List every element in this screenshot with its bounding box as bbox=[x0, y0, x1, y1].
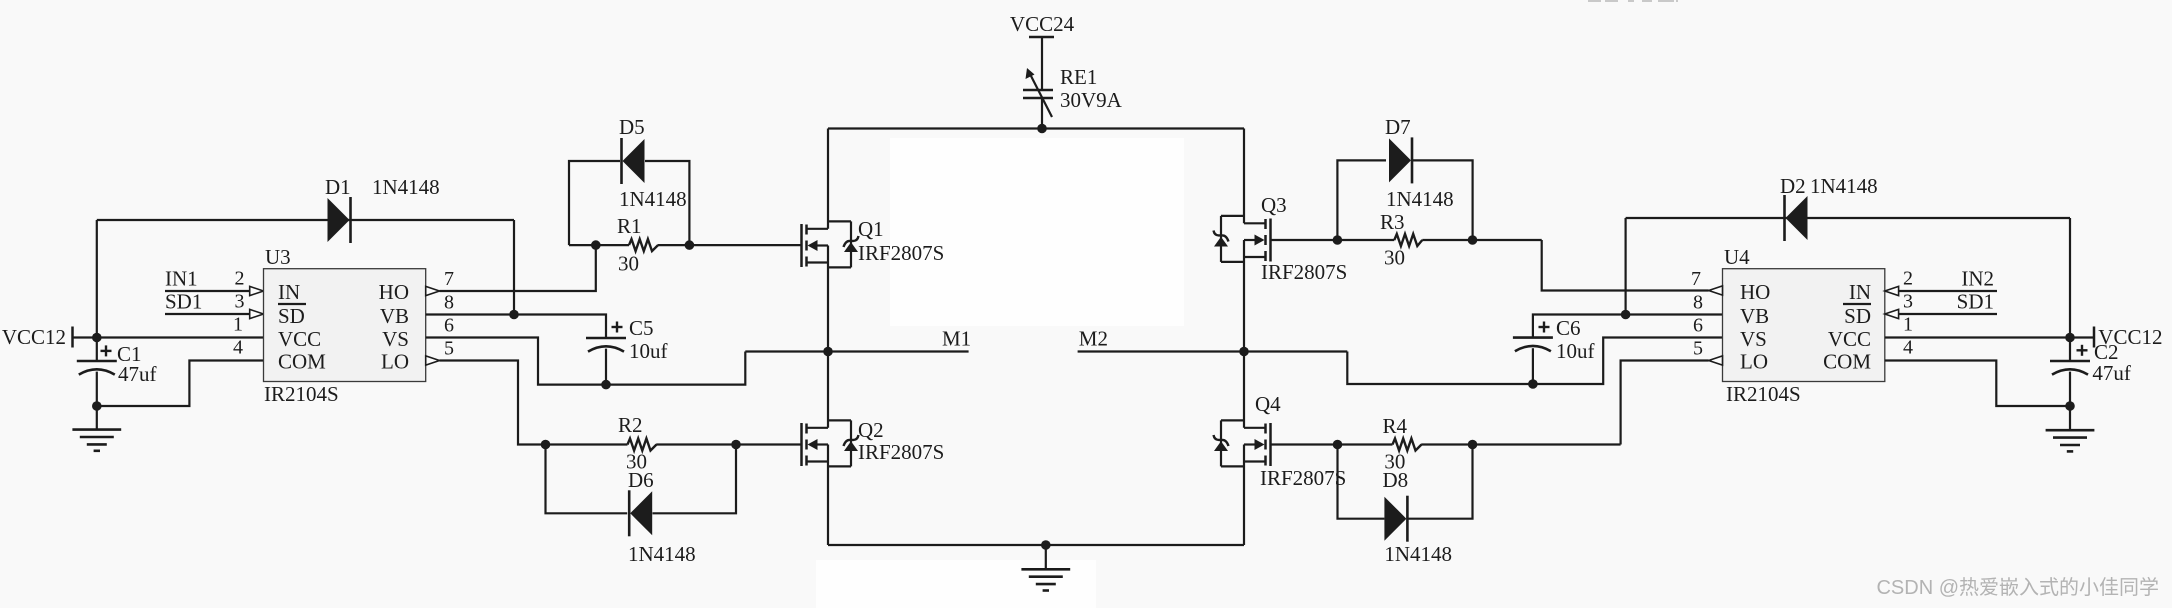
svg-text:8: 8 bbox=[1693, 292, 1703, 314]
fuse RE1 bbox=[1023, 89, 1053, 92]
svg-text:1: 1 bbox=[1903, 314, 1913, 336]
svg-text:1: 1 bbox=[233, 314, 243, 336]
svg-text:IR2104S: IR2104S bbox=[264, 382, 339, 406]
svg-text:VB: VB bbox=[380, 304, 409, 328]
wire VB to C6 bbox=[1533, 315, 1723, 338]
wire Q4 source bbox=[1243, 445, 1245, 546]
svg-text:IRF2807S: IRF2807S bbox=[1261, 260, 1347, 284]
svg-text:30: 30 bbox=[618, 252, 639, 276]
node VCC12/C2 junction bbox=[2065, 333, 2075, 343]
svg-text:10uf: 10uf bbox=[1556, 339, 1595, 363]
svg-text:CSDN @热爱嵌入式的小佳同学: CSDN @热爱嵌入式的小佳同学 bbox=[1876, 576, 2159, 599]
svg-text:Q2: Q2 bbox=[858, 418, 884, 442]
wire R3 to HO bbox=[1542, 240, 1709, 291]
op-amp U3 body bbox=[264, 269, 426, 382]
svg-text:7: 7 bbox=[444, 268, 454, 290]
svg-text:IN: IN bbox=[1849, 280, 1871, 304]
wire R4 to LO bbox=[1621, 361, 1709, 445]
watermark top sliver bbox=[1588, 0, 1678, 2]
wire LO to R2 bbox=[440, 361, 546, 445]
svg-text:1N4148: 1N4148 bbox=[1386, 187, 1454, 211]
svg-text:D1: D1 bbox=[325, 175, 351, 199]
wire bottom rail bbox=[828, 544, 1244, 546]
svg-text:COM: COM bbox=[278, 350, 326, 374]
ground GND1 (C1) bbox=[96, 406, 98, 430]
svg-text:C5: C5 bbox=[629, 316, 654, 340]
svg-text:D8: D8 bbox=[1383, 468, 1409, 492]
node R3 left junction bbox=[1333, 235, 1343, 245]
svg-text:U4: U4 bbox=[1724, 245, 1750, 269]
svg-text:LO: LO bbox=[381, 350, 409, 374]
svg-text:D2: D2 bbox=[1780, 174, 1806, 198]
node R2 right junction bbox=[731, 440, 741, 450]
svg-text:7: 7 bbox=[1691, 268, 1701, 290]
svg-text:VCC24: VCC24 bbox=[1010, 12, 1075, 36]
svg-text:8: 8 bbox=[444, 292, 454, 314]
pin 5 arrow (U4 LO) bbox=[1709, 356, 1723, 365]
resistor R3 bbox=[1271, 239, 1395, 241]
svg-text:D5: D5 bbox=[619, 115, 645, 139]
svg-text:LO: LO bbox=[1740, 350, 1768, 374]
diode D2 bbox=[1786, 196, 1808, 240]
svg-text:6: 6 bbox=[444, 315, 454, 337]
resistor R1 bbox=[569, 244, 629, 246]
op-amp U4 body bbox=[1723, 269, 1885, 382]
pin 3 arrow bbox=[250, 309, 264, 318]
pin 7 arrow (HO out) bbox=[426, 286, 440, 295]
svg-text:IRF2807S: IRF2807S bbox=[858, 241, 944, 265]
svg-text:IN1: IN1 bbox=[165, 267, 198, 291]
svg-text:C6: C6 bbox=[1556, 316, 1581, 340]
net SD1 wire (left) bbox=[165, 313, 250, 315]
node R3 right junction bbox=[1468, 235, 1478, 245]
svg-text:2: 2 bbox=[1903, 268, 1913, 290]
node RE1 junction bbox=[1037, 124, 1047, 134]
wire D2 right vertical bbox=[2069, 218, 2071, 338]
capacitor C5 bbox=[586, 337, 626, 340]
wire D5 loop bbox=[569, 161, 620, 245]
U4 SD overline bbox=[1843, 303, 1871, 305]
svg-text:Q1: Q1 bbox=[858, 217, 884, 241]
pin 2 arrow (U4 IN) bbox=[1885, 286, 1899, 295]
power port VCC12 (left) bbox=[71, 327, 74, 348]
svg-text:M1: M1 bbox=[942, 327, 971, 351]
svg-text:SD: SD bbox=[278, 304, 305, 328]
diode D5 bbox=[623, 139, 645, 183]
power port VCC12 (right) bbox=[2093, 327, 2096, 348]
svg-text:Q3: Q3 bbox=[1261, 193, 1287, 217]
svg-text:M2: M2 bbox=[1079, 327, 1108, 351]
background patch bottom bbox=[816, 560, 1096, 608]
wire VS path (right) bbox=[1347, 338, 1722, 385]
resistor R2 bbox=[546, 443, 628, 445]
node M1 junction bbox=[823, 347, 833, 357]
svg-text:1N4148: 1N4148 bbox=[1810, 174, 1878, 198]
node VB/D2 junction bbox=[1621, 310, 1631, 320]
svg-text:RE1: RE1 bbox=[1060, 65, 1097, 89]
wire Q2 source bbox=[827, 445, 829, 546]
node C5 bottom junction bbox=[601, 380, 611, 390]
transistor Q4 bbox=[1269, 423, 1272, 466]
ground GND center bbox=[1045, 545, 1047, 569]
svg-text:3: 3 bbox=[235, 291, 245, 313]
wire COM to C1 bbox=[97, 361, 264, 407]
diode D2 wire bbox=[1626, 217, 2070, 219]
svg-text:IN2: IN2 bbox=[1961, 267, 1994, 291]
node D1/VB junction bbox=[509, 310, 519, 320]
pin 5 arrow (LO out) bbox=[426, 356, 440, 365]
wire D1 right vertical bbox=[513, 220, 515, 315]
background patch center bbox=[890, 138, 1184, 326]
wire Q1 drain bbox=[827, 129, 829, 229]
node C2 bottom junction bbox=[2065, 401, 2075, 411]
wire VB to C5 bbox=[426, 315, 606, 339]
svg-text:SD1: SD1 bbox=[1957, 290, 1994, 314]
U3 SD overline bbox=[278, 303, 306, 305]
svg-text:VCC12: VCC12 bbox=[2, 325, 66, 349]
wire D2 left vertical bbox=[1624, 218, 1626, 315]
transistor Q1 bbox=[800, 224, 803, 267]
node R4 left junction bbox=[1333, 440, 1343, 450]
svg-text:D6: D6 bbox=[628, 468, 654, 492]
node C6 bottom junction bbox=[1528, 379, 1538, 389]
wire D8 loop bbox=[1338, 445, 1385, 519]
svg-text:HO: HO bbox=[379, 280, 409, 304]
svg-text:47uf: 47uf bbox=[118, 362, 157, 386]
node VCC12/C1 junction bbox=[92, 333, 102, 343]
wire VCC to VCC12 (right) bbox=[1885, 336, 2094, 338]
svg-text:5: 5 bbox=[444, 338, 454, 360]
svg-text:VS: VS bbox=[382, 327, 409, 351]
capacitor C2 bbox=[2069, 338, 2071, 362]
svg-text:1N4148: 1N4148 bbox=[628, 542, 696, 566]
svg-text:SD1: SD1 bbox=[165, 290, 202, 314]
svg-text:R1: R1 bbox=[617, 214, 642, 238]
wire D7 loop bbox=[1337, 160, 1386, 240]
svg-text:D7: D7 bbox=[1385, 115, 1411, 139]
diode D7 bbox=[1389, 138, 1411, 182]
diode D6 bbox=[630, 491, 652, 535]
wire D6 loop bbox=[546, 445, 628, 514]
svg-text:R4: R4 bbox=[1383, 414, 1408, 438]
svg-text:4: 4 bbox=[1903, 337, 1913, 359]
svg-text:IRF2807S: IRF2807S bbox=[1260, 466, 1346, 490]
svg-text:30: 30 bbox=[1384, 246, 1405, 270]
svg-text:VCC: VCC bbox=[1828, 327, 1871, 351]
wire COM to C2 bbox=[1885, 361, 2070, 407]
pin 2 arrow bbox=[250, 286, 264, 295]
wire Q1 source / Q2 drain bbox=[827, 246, 829, 428]
wire VCC12 to U3 pin1 bbox=[73, 336, 264, 338]
wire top rail bbox=[828, 127, 1244, 129]
node M2 junction bbox=[1239, 347, 1249, 357]
net IN2 wire bbox=[1899, 290, 1997, 292]
capacitor C6 bbox=[1513, 336, 1553, 339]
node ground junction bbox=[1041, 540, 1051, 550]
wire Q3 source / Q4 drain bbox=[1243, 240, 1245, 428]
transistor Q3 bbox=[1269, 219, 1272, 262]
svg-text:HO: HO bbox=[1740, 280, 1770, 304]
node R1 right junction bbox=[685, 240, 695, 250]
svg-text:5: 5 bbox=[1693, 338, 1703, 360]
diode D8 bbox=[1384, 497, 1406, 541]
svg-text:10uf: 10uf bbox=[629, 339, 668, 363]
svg-text:47uf: 47uf bbox=[2092, 361, 2131, 385]
svg-text:IN: IN bbox=[278, 280, 300, 304]
wire/net M2 bbox=[1078, 350, 1348, 352]
diode D1 bbox=[328, 198, 350, 242]
wire HO to R1 bbox=[440, 245, 596, 291]
net SD1 wire (right) bbox=[1899, 313, 1997, 315]
svg-text:1N4148: 1N4148 bbox=[619, 187, 687, 211]
svg-text:3: 3 bbox=[1903, 291, 1913, 313]
svg-text:IR2104S: IR2104S bbox=[1726, 382, 1801, 406]
svg-text:SD: SD bbox=[1844, 304, 1871, 328]
wire VS path bbox=[426, 338, 746, 385]
svg-text:6: 6 bbox=[1693, 315, 1703, 337]
svg-text:Q4: Q4 bbox=[1255, 392, 1281, 416]
ground GND2 (C2) bbox=[2069, 406, 2071, 430]
svg-text:VCC: VCC bbox=[278, 327, 321, 351]
svg-text:1N4148: 1N4148 bbox=[372, 175, 440, 199]
svg-text:VB: VB bbox=[1740, 304, 1769, 328]
resistor R4 bbox=[1271, 443, 1393, 445]
node R4 right junction bbox=[1468, 440, 1478, 450]
svg-text:2: 2 bbox=[235, 268, 245, 290]
svg-text:IRF2807S: IRF2807S bbox=[858, 440, 944, 464]
wire/net M1 bbox=[745, 350, 968, 352]
svg-text:4: 4 bbox=[233, 337, 243, 359]
svg-text:VS: VS bbox=[1740, 327, 1767, 351]
pin 7 arrow (U4 HO) bbox=[1709, 286, 1723, 295]
svg-text:R2: R2 bbox=[618, 413, 643, 437]
node R2 left junction bbox=[541, 440, 551, 450]
transistor Q2 bbox=[800, 423, 803, 466]
capacitor C1 bbox=[96, 338, 98, 362]
net IN1 wire bbox=[165, 290, 250, 292]
svg-text:COM: COM bbox=[1823, 350, 1871, 374]
svg-text:1N4148: 1N4148 bbox=[1384, 542, 1452, 566]
wire Q3 drain bbox=[1243, 129, 1245, 224]
node C1 bottom junction bbox=[92, 401, 102, 411]
diode D1 wire bbox=[97, 219, 514, 221]
node HO/R1 junction bbox=[591, 240, 601, 250]
svg-text:30V9A: 30V9A bbox=[1060, 88, 1123, 112]
pin 3 arrow (U4 SD) bbox=[1885, 309, 1899, 318]
svg-text:R3: R3 bbox=[1380, 210, 1405, 234]
wire D1 left vertical bbox=[96, 220, 98, 338]
svg-text:U3: U3 bbox=[265, 245, 291, 269]
